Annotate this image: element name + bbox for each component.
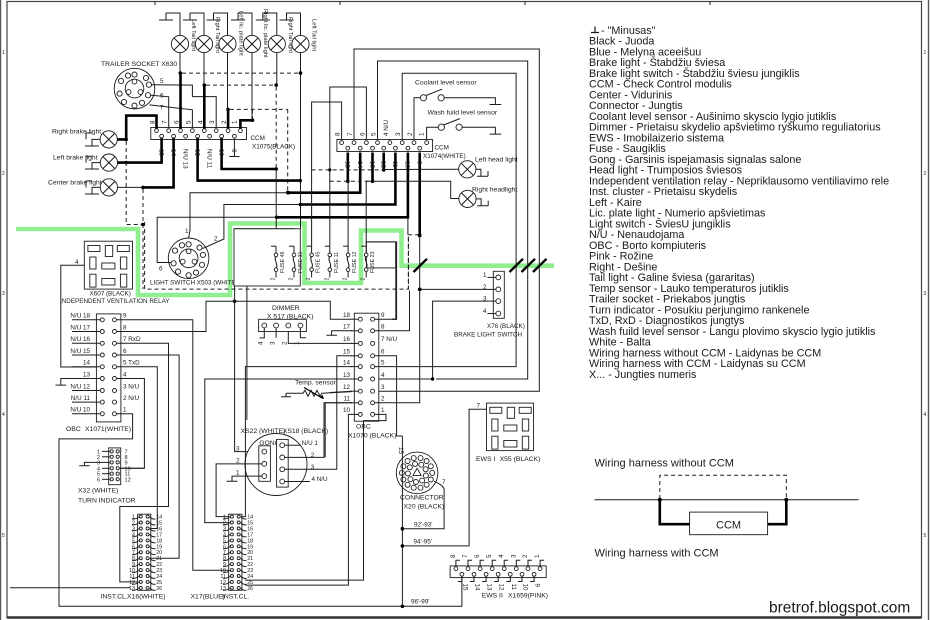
svg-text:X16(WHITE): X16(WHITE) [127,594,166,601]
svg-text:FUSE 31: FUSE 31 [298,251,304,273]
svg-text:4: 4 [381,372,385,379]
svg-text:10: 10 [343,407,351,414]
wire XS22 pin1 ground [227,476,262,481]
svg-text:6: 6 [474,554,481,558]
svg-text:4: 4 [924,412,927,418]
svg-text:3: 3 [2,291,5,297]
wire lamp2 to CCM1 pin4 [203,53,205,86]
svg-text:9: 9 [230,149,237,153]
svg-text:1: 1 [381,407,385,414]
svg-text:X1074(WHITE): X1074(WHITE) [423,153,466,160]
svg-text:N/U 1: N/U 1 [302,440,319,447]
wire green harness highlight [16,224,554,296]
svg-text:15: 15 [397,447,404,455]
svg-text:N/U 13: N/U 13 [181,149,188,169]
wire CCM1 pin12 thick to node300 [198,138,299,181]
wire lamp4 to CCM1 pin1 [251,53,253,121]
svg-text:12: 12 [125,477,131,483]
svg-text:5: 5 [381,359,385,366]
svg-text:8: 8 [335,132,342,136]
wire lamp5 down [276,53,278,86]
svg-text:12: 12 [380,161,387,169]
svg-text:N/U 15: N/U 15 [70,348,90,355]
dashed link fuse45-pin12 [312,169,384,171]
svg-text:9: 9 [381,312,385,319]
svg-text:2: 2 [2,171,5,177]
wire right brake to CCM1 pin8 (thick) [117,116,156,140]
svg-text:N/U 11: N/U 11 [205,149,212,169]
fuse FUSE 31 [289,246,305,280]
svg-text:6: 6 [381,349,385,356]
wire fuse31 elbow [235,229,294,301]
svg-text:1: 1 [924,50,927,56]
fuse FUSE 46 [271,246,287,280]
svg-text:7: 7 [477,403,481,410]
svg-text:3: 3 [395,132,402,136]
connector X32 (WHITE) turn indicator [78,448,136,505]
wire X1071 pin9 riser down [117,320,229,570]
fuse FUSE 23 [361,246,377,280]
svg-text:8: 8 [123,324,127,331]
svg-text:2: 2 [407,132,414,136]
lamp Right Tail light 5 [256,13,293,53]
svg-text:14: 14 [474,584,481,592]
svg-text:3: 3 [483,296,487,303]
wire pin9 chain thin down to X76 pin2 node [419,236,421,290]
svg-text:1: 1 [419,132,426,136]
svg-text:5: 5 [924,533,927,539]
connector OBC X1071(WHITE) [66,313,141,433]
svg-text:5: 5 [160,78,164,85]
fuse FUSE 45 [306,246,322,280]
wire X1070 pin10 down to X17 pin26 [245,414,352,585]
wire pin10 chain solid stub [407,217,409,235]
svg-text:FUSE 11: FUSE 11 [334,252,340,273]
svg-text:1: 1 [231,120,238,124]
svg-text:2: 2 [306,278,312,281]
wire X1071 pin13 ground [56,379,73,386]
svg-text:7: 7 [442,479,446,486]
svg-text:7: 7 [462,554,469,558]
svg-text:X1071(WHITE): X1071(WHITE) [85,426,131,433]
relay X607 (BLACK) independent ventilation relay [60,241,170,305]
svg-text:X... - Jungties numeris: X... - Jungties numeris [589,369,697,381]
wire CCM2 pin11 thick elbow [300,153,395,205]
svg-text:17: 17 [343,324,351,331]
svg-text:7: 7 [160,105,164,112]
wire trailer pin7 to CCM1 pin5 [150,105,193,128]
wire fuse46 elbow to 246.9 [247,241,276,301]
wire XS18 pin2 to X1070 pin11 [285,403,352,458]
dashed brake junction links [126,141,143,225]
svg-text:15: 15 [343,349,351,356]
svg-text:2: 2 [282,341,289,345]
wire XS22 pin2 long left [216,464,262,517]
svg-text:9: 9 [416,161,423,165]
svg-text:DIMMER: DIMMER [272,305,300,312]
svg-text:94'-95': 94'-95' [414,539,433,546]
svg-text:15: 15 [461,584,468,592]
fuse FUSE 12 [343,246,359,280]
wire X1070 pin5 to vertical [375,366,424,368]
svg-text:2: 2 [483,284,487,291]
wire XS18 pin1 stub [285,444,301,446]
box A around light switch [234,229,300,286]
svg-text:11: 11 [343,396,350,403]
svg-text:13: 13 [220,586,226,592]
svg-text:6: 6 [159,266,163,273]
legend text block [589,25,889,381]
svg-text:4: 4 [258,341,265,345]
svg-text:Right brake light: Right brake light [52,129,101,136]
svg-text:LIGHT SWITCH X503 (WHITE): LIGHT SWITCH X503 (WHITE) [150,280,238,287]
svg-text:3: 3 [510,554,517,558]
wire lamp1 to CCM1 pin6 [179,53,181,74]
svg-text:1: 1 [123,407,127,414]
svg-text:6: 6 [97,477,100,483]
svg-text:2: 2 [924,171,927,177]
svg-text:92'-93': 92'-93' [414,522,433,529]
svg-text:INDEPENDENT VENTILATION RELAY: INDEPENDENT VENTILATION RELAY [60,298,170,305]
wire CCM1 pin10 thick to fuse46 line [222,138,276,170]
connector trailer socket X630 [101,61,177,112]
svg-text:11: 11 [391,161,398,168]
svg-text:13: 13 [83,371,91,378]
svg-text:15: 15 [344,161,351,169]
svg-text:1: 1 [2,50,5,56]
wire fuse46 chain down to gong area [246,301,248,420]
switch coolant level sensor [414,79,501,139]
wire X20 pin7 to 92-93 node [402,481,444,528]
svg-text:X1659(PINK): X1659(PINK) [508,593,548,600]
lamp Left head light [384,157,518,178]
svg-text:INST.CL.: INST.CL. [101,594,128,601]
wire X1070 pin9 riser to fuse23/boxB [375,318,397,320]
wire XS18 pin3 to X1070 pin15 [285,356,352,470]
svg-text:1: 1 [534,554,541,558]
svg-text:Right Tail light: Right Tail light [214,17,220,53]
svg-text:Left head light: Left head light [475,157,518,164]
svg-text:X32 (WHITE): X32 (WHITE) [78,488,118,495]
svg-text:16: 16 [343,336,351,343]
wire fuse23 feeder from CCM2 pin13 thick [371,153,374,182]
wire X1071 pin5 TxD riser [117,367,158,529]
svg-text:Right headlight: Right headlight [472,187,517,194]
connector X20 (BLACK) [396,452,446,510]
wire X1071 pin1 chain to bottom rail [59,414,462,607]
svg-text:4 N/U: 4 N/U [312,476,329,483]
svg-text:CCM: CCM [251,135,265,142]
slash marks on green wire [414,259,547,272]
wire left brake to CCM1 pin15 (thick) [118,138,162,163]
svg-text:7 RxD: 7 RxD [123,336,141,343]
svg-text:4: 4 [498,554,505,558]
svg-text:13: 13 [343,372,351,379]
module EWS I X55 (BLACK) [476,403,540,463]
connector OBC X1070(BLACK) [343,312,398,440]
svg-text:N/U 18: N/U 18 [70,313,90,320]
svg-text:3: 3 [924,291,927,297]
lamp Left lic. plate light [207,11,244,56]
connector CCM X1075(BLACK) [150,120,296,169]
svg-text:TURN INDICATOR: TURN INDICATOR [78,498,136,505]
wire CCM2 pin5 over-the-top to x527.7 [378,61,528,379]
resistor temp sensor [281,380,352,400]
svg-text:CCM: CCM [716,520,741,532]
svg-text:2: 2 [271,278,277,281]
switch wash fuild level sensor [427,110,502,140]
dashed D1 [182,72,299,74]
wire X1070 pin1 down to X17 pin25 [245,414,386,580]
wire trailer pin5 to CCM1 pin3 [152,85,217,128]
svg-text:CONNECTOR: CONNECTOR [400,495,444,502]
wire X1070 pin17 ground [326,331,352,336]
svg-text:14: 14 [356,161,363,169]
wire LS pin1 up to thick y192.7 [189,193,289,238]
svg-text:1: 1 [294,341,301,345]
wire boxB right leg down [392,242,396,319]
box B small module [366,242,395,268]
svg-text:INST.CL.: INST.CL. [222,594,249,601]
svg-text:5: 5 [2,533,5,539]
wire X1070 pin8 riser up [375,291,410,331]
svg-text:13: 13 [486,584,493,592]
svg-text:CCM: CCM [435,145,449,152]
svg-text:2: 2 [289,278,295,281]
svg-text:5 TxD: 5 TxD [123,360,140,367]
dashed link pins15-13 [330,180,373,182]
connector INST.CL. X16(WHITE) [101,514,166,600]
svg-text:OBC: OBC [66,426,81,433]
svg-text:12: 12 [343,384,351,391]
lamp Center brake light [48,179,118,196]
svg-text:N/U 12: N/U 12 [70,383,90,390]
svg-text:2: 2 [311,452,315,459]
fuse FUSE 11 [324,246,340,280]
wire X76 pin2 to pin9 node [422,288,496,290]
svg-text:Left Tail light: Left Tail light [190,19,196,52]
wire CCM2 pin10 thick elbow [277,153,408,218]
svg-text:Wash fuild level sensor: Wash fuild level sensor [428,110,498,117]
wire CCM2 pin3 over-the-top to x516.1 [402,73,516,366]
wire thick CCM taps [660,500,690,525]
node dots on y301 [233,300,237,304]
svg-text:6: 6 [123,348,127,355]
svg-text:Left brake light: Left brake light [53,155,98,162]
wire X1070 pin14 to X17 pin14 [239,367,352,517]
wire X1070 pin11 down [325,403,352,458]
wire LS pin6 [157,217,276,262]
lamp Right brake light [52,129,117,148]
wire center brake to CCM1 pin14 [118,186,144,188]
connector X17(BLUE) INST.CL. [191,514,254,600]
svg-text:Center brake light: Center brake light [48,180,102,187]
svg-text:2: 2 [381,396,385,403]
wire X1070 pin2 riser to pin9node [375,291,420,403]
svg-text:5: 5 [371,132,378,136]
wire X32 pin10 stub [120,467,145,469]
dashed D3 [230,109,288,192]
svg-text:2: 2 [343,278,349,281]
connector X76 (BLACK) brake light switch [454,271,525,338]
svg-text:13: 13 [368,161,375,169]
wire fuse46 feeder [275,169,277,246]
svg-text:5: 5 [486,554,493,558]
CCM box [690,512,768,535]
svg-text:18: 18 [343,312,351,319]
wire fuse12 feeder from CCM2 pin15 thick [346,153,349,182]
svg-text:FUSE 12: FUSE 12 [352,251,358,273]
wire lamp6 down to thick junction [300,53,302,229]
connector GONG XS22(WHITE)/XS18(BLACK) [236,428,328,496]
svg-text:N/U 17: N/U 17 [70,324,90,331]
svg-text:BRAKE LIGHT SWITCH: BRAKE LIGHT SWITCH [454,332,523,339]
svg-text:4: 4 [483,308,487,315]
wire X1070 pin16 from dimmer pin2 [288,332,352,344]
wire CCM1 pin9 terminator [229,138,239,156]
dashed X76 zone edge [407,237,409,290]
wire X1071pin8 riser to X1070 pin18 [206,301,351,331]
svg-text:1: 1 [185,228,189,235]
svg-text:7: 7 [347,132,354,136]
lamp Left Tail light 1 [159,13,196,53]
svg-text:Right Tail light: Right Tail light [287,17,293,53]
svg-text:11: 11 [510,584,517,591]
lamp Left Tail light 6 [280,13,317,53]
svg-text:5: 5 [185,120,192,124]
connector EWS II X1659(PINK) [450,554,548,600]
wire main line [595,499,859,501]
wire X76 pin3 to X1070 pin4 [379,301,496,379]
connector DIMMER X517 (BLACK) [258,305,314,345]
svg-text:3: 3 [381,384,385,391]
wire X1071 pin8 riser [117,301,206,331]
svg-text:X76 (BLACK): X76 (BLACK) [487,323,525,330]
svg-text:6: 6 [359,132,366,136]
svg-text:12: 12 [498,584,505,592]
svg-text:N/U 11: N/U 11 [71,395,91,402]
wire CCM2 pin7 over-the-top to x539 [354,49,539,391]
svg-text:X1075(BLACK): X1075(BLACK) [252,144,295,151]
wire fuse11 feeder from CCM2 pin6 [330,87,367,246]
wire X1070 pin13 to X17 pin2 [205,379,352,523]
lamp Right lic. plate light [231,9,268,58]
svg-text:26: 26 [156,586,162,592]
svg-text:3: 3 [209,120,216,124]
svg-text:2 N/U: 2 N/U [123,395,140,402]
svg-text:4: 4 [2,412,5,418]
svg-text:N/U 16: N/U 16 [70,336,90,343]
svg-text:2: 2 [361,278,367,281]
svg-text:X17(BLUE): X17(BLUE) [191,594,225,601]
svg-text:7: 7 [162,120,169,124]
svg-text:Coolant level sensor: Coolant level sensor [415,79,477,86]
svg-text:9: 9 [123,313,127,320]
svg-text:8: 8 [450,554,457,558]
svg-text:10: 10 [404,161,411,169]
dashed bypass box [660,475,787,499]
svg-text:2: 2 [324,278,330,281]
svg-text:14: 14 [343,359,351,366]
svg-text:Left Tail light: Left Tail light [311,19,317,52]
svg-text:3: 3 [236,446,240,453]
wire X607 pin4 down to X1071 pin14 [61,265,97,367]
svg-text:TRAILER SOCKET X630: TRAILER SOCKET X630 [101,61,177,68]
wire X1071 pin6 riser [117,355,179,558]
svg-text:4: 4 [123,371,127,378]
lamp Right headlight [373,181,518,207]
svg-text:3: 3 [269,341,276,345]
wire CCM2 pin9 thick down [418,153,421,236]
wire XS18 pin4 stub [285,481,310,483]
dashed harness boundary [145,222,419,289]
wire fuse23 top to OBC pin9 riser [366,242,396,319]
wire CCM2 pin14 thick elbow [288,153,360,193]
svg-text:14: 14 [83,360,91,367]
wire fuse45 feeder from CCM2 pin8 [312,102,342,246]
svg-text:Wiring harness with CCM: Wiring harness with CCM [595,548,719,560]
svg-text:10: 10 [522,584,529,592]
wire X1070 pin12 from temp sensor [330,391,352,392]
lamp Left brake light [53,154,118,171]
svg-text:N/U 10: N/U 10 [70,407,90,414]
svg-text:bretrof.blogspot.com: bretrof.blogspot.com [769,600,910,617]
switch light switch X503 (WHITE) [150,228,238,287]
svg-text:EWS I: EWS I [476,456,495,463]
svg-text:Wiring harness without CCM: Wiring harness without CCM [595,458,734,470]
wire X1071 pin4 to X32 pin10 [117,379,145,469]
wire LS pin2 [203,205,301,249]
svg-text:9: 9 [534,584,541,588]
svg-text:X55 (BLACK): X55 (BLACK) [500,456,541,463]
svg-text:13: 13 [129,586,135,592]
wire X1071 pin7 RxD riser [117,343,169,582]
wire trailer pin6 to CCM1 pin7 [151,95,169,127]
wire 94-95 to EWS I pin7 [402,409,486,546]
svg-text:FUSE 45: FUSE 45 [316,251,322,273]
svg-text:3 N/U: 3 N/U [123,383,140,390]
wire X16 pin13 long left [10,587,130,589]
wire fuse31 chain down to gong [235,301,259,451]
svg-text:26: 26 [247,586,253,592]
svg-text:4 N/U: 4 N/U [383,119,390,136]
svg-text:1: 1 [483,272,487,279]
svg-text:X1070 (BLACK): X1070 (BLACK) [348,433,396,440]
svg-text:EWS II: EWS II [482,593,503,600]
wire CCM2 pin12 thick stub [382,153,385,170]
dashed D2 [206,84,275,86]
connector CCM X1074(WHITE) [335,119,466,168]
svg-text:X20 (BLACK): X20 (BLACK) [404,504,445,511]
svg-text:96'-99': 96'-99' [411,599,430,606]
svg-text:FUSE 46: FUSE 46 [280,251,286,273]
svg-text:1: 1 [236,470,240,477]
svg-text:FUSE 23: FUSE 23 [370,251,376,273]
svg-text:X607 (BLACK): X607 (BLACK) [90,291,131,298]
svg-text:Temp. sensor: Temp. sensor [295,380,337,387]
wire X32 pin3 ground [79,462,102,465]
wire lamp3 to CCM1 pin2 [227,53,229,110]
dashed lamp5 alternate down [275,87,277,168]
svg-text:7 N/U: 7 N/U [381,336,398,343]
lamp Right Tail light 2 [183,13,220,53]
wire X1070 pin6 down to EWSII area [375,356,403,436]
wire 92-93 / 94-95 trunk [401,436,403,606]
svg-text:XS18 (BLACK): XS18 (BLACK) [283,428,328,435]
svg-text:8: 8 [381,324,385,331]
svg-text:2: 2 [522,554,529,558]
